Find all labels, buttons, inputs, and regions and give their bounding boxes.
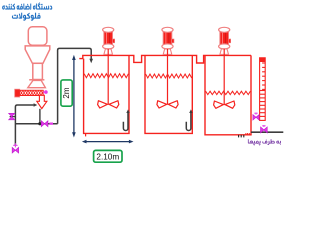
motor stand M2	[163, 49, 172, 55]
water inlet pipe with arrow	[15, 105, 33, 146]
2m dimension line	[73, 58, 75, 135]
drop pipe from arrow	[39, 109, 41, 124]
tank 3 liquid level	[206, 91, 251, 94]
dosing column (level gauge)	[260, 58, 266, 121]
svg-text:2m: 2m	[62, 87, 71, 98]
tank 2 walls	[145, 55, 192, 133]
agitator shaft M2	[167, 49, 169, 105]
agitator motor M3	[219, 27, 231, 49]
bottom drain valve V3	[13, 144, 17, 146]
svg-text:2.10m: 2.10m	[96, 152, 119, 161]
tank 1 walls	[84, 55, 129, 133]
valve V2	[41, 121, 44, 127]
mixed solution pipe	[15, 123, 57, 125]
tank 2 liquid level	[146, 74, 192, 78]
screw feeder drive motor	[15, 89, 20, 97]
2.10m dimension line	[85, 141, 130, 143]
2m label box	[61, 80, 72, 106]
motor stand M3	[220, 49, 229, 55]
title line 2: flokoolat	[12, 13, 40, 21]
propeller M3	[214, 101, 235, 108]
tank 3 walls	[205, 55, 251, 134]
caption: be taraf-e pompha	[248, 139, 281, 145]
agitator shaft M1	[107, 49, 109, 105]
agitator motor M2	[162, 27, 174, 49]
flocculant drop arrow	[37, 95, 47, 108]
hopper flange	[29, 79, 44, 81]
motor stand M1	[104, 49, 113, 55]
propeller M2	[157, 101, 178, 108]
drain stub valve V1	[10, 116, 16, 118]
tank 1 liquid level	[84, 74, 128, 78]
conveyor outlet node	[44, 90, 48, 94]
internal J draft tube tank 1	[123, 112, 128, 130]
red ticks at drain corner	[246, 133, 249, 136]
hopper neck	[33, 63, 43, 79]
tank 3 bottom supports	[239, 135, 244, 138]
hopper discharge cone	[28, 80, 46, 87]
internal J draft tube tank 2	[186, 112, 191, 130]
agitator shaft M3	[223, 49, 225, 105]
pump suction valve V5	[261, 127, 264, 133]
riser pipe to tank 1	[58, 48, 92, 123]
hopper funnel	[25, 46, 50, 63]
title line 1: dastgah ezafe konande	[2, 2, 52, 9]
column outlet valve V4	[253, 115, 256, 120]
tank 1 drain tick	[85, 133, 87, 136]
agitator motor M1	[103, 27, 115, 49]
tank top edges and overflow channels	[79, 55, 251, 63]
propeller M1	[98, 101, 119, 108]
screw conveyor barrel	[20, 90, 43, 95]
2.10m label box	[94, 150, 122, 162]
flocculant hopper top box	[28, 27, 47, 45]
suction line to pumps	[251, 131, 283, 133]
